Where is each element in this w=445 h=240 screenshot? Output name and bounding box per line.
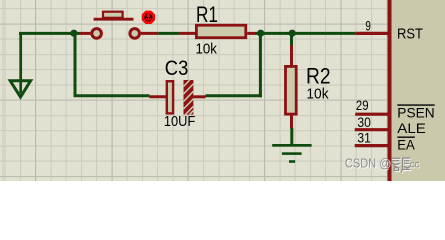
svg-text:29: 29 [356,97,369,113]
wire: top-left vertical down to ground arrow [19,32,22,94]
resistor R1 lead left [179,32,196,35]
svg-text:RST: RST [397,26,423,43]
svg-text:R2: R2 [306,63,331,88]
chip pin 30 line [355,128,388,131]
chip pin 29 line [355,113,388,116]
resistor R2 body [286,66,297,114]
resistor R2 lead top [290,45,293,66]
pin name PSEN (with overline) [397,105,434,120]
wire: between button and R1 [158,32,179,35]
svg-text:ALE: ALE [397,121,426,136]
svg-text:CSDN @: CSDN @ [345,156,391,171]
resistor R2 lead bottom [290,115,293,128]
wire: C3 row horizontal right segment [206,94,262,97]
svg-text:30: 30 [357,114,371,130]
junction node C [289,30,296,37]
chip pin 31 line [355,144,388,147]
capacitor C3 lead right [193,95,205,98]
wire: vertical from node C to R2 [290,33,293,46]
capacitor C3 left plate [167,81,173,113]
ground (arrow symbol, top-left) [10,81,30,97]
button right terminal [130,29,140,39]
wire: R2 to ground [290,128,293,145]
ground (bar symbol under R2) [272,144,311,163]
svg-text:EA: EA [397,138,415,153]
button lead left [80,32,90,35]
button actuator bar [94,18,134,21]
resistor R1 lead right [247,32,256,35]
resistor R1 body [196,25,245,38]
chip U1 body (8051 left edge) [388,0,445,181]
red origin marker (anchor) [143,12,154,23]
svg-text:C3: C3 [165,56,189,80]
wire: vertical branch at node A down to C3 row [74,33,77,95]
wire: vertical from node B down to C3 right [259,33,262,97]
wire: node B to node C to chip pin 9 [255,32,355,35]
svg-text:31: 31 [357,129,371,145]
chip pin 9 line [355,32,388,35]
button cap [103,12,123,18]
button lead right [141,32,158,35]
capacitor C3 right plate (hatched +) [184,80,194,117]
wire: C3 row horizontal left segment [74,94,150,97]
wire: top-left horizontal from ground corner to junction A [19,32,80,35]
junction node A [70,30,77,37]
pin name EA (with overline) [397,137,415,152]
svg-text:PSEN: PSEN [397,106,434,121]
junction node B [257,30,264,37]
button left terminal [92,29,102,39]
svg-text:10k: 10k [306,86,329,103]
svg-text:10k: 10k [196,40,218,57]
svg-text:9: 9 [365,17,371,33]
watermark CSDN @零度cc [345,156,421,174]
svg-text:cc: cc [410,159,420,170]
capacitor C3 lead left [150,95,167,98]
svg-text:10UF: 10UF [164,113,195,130]
svg-text:R1: R1 [196,2,218,27]
